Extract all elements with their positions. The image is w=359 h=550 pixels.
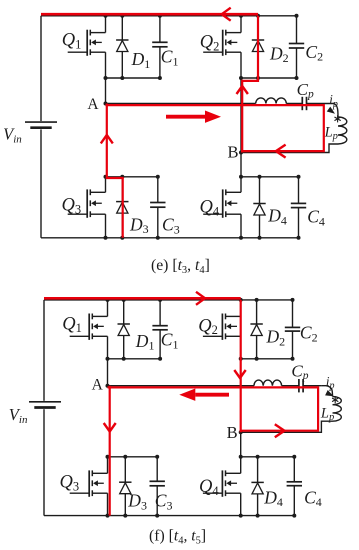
diode D4 (fig f): [257, 457, 259, 516]
wire bottom rail (fig e): [41, 237, 299, 239]
junction Q1 source (fig e): [104, 76, 108, 80]
junction Q3 source on bottom rail (fig f): [106, 514, 110, 518]
junction C2 bottom (fig e): [295, 76, 299, 80]
junction Q2 drain on top rail (fig e): [239, 14, 243, 18]
wire Lp bottom to B rail (fig e): [241, 144, 338, 153]
wire top rail (fig e): [41, 15, 297, 17]
red arrow down on A leg (fig f): [104, 423, 116, 432]
diode D3 (fig e): [121, 177, 123, 238]
diode D1 (fig f): [123, 300, 125, 359]
capacitor Cp (fig f): [298, 379, 300, 392]
wire junction row below Q1 (fig e): [106, 77, 160, 79]
capacitor C1 (fig f): [159, 300, 161, 326]
node A (fig e): [104, 102, 108, 106]
capacitor Cp (fig e): [301, 97, 303, 110]
battery Vin (fig f): [29, 401, 61, 403]
node A (fig f): [106, 384, 110, 388]
junction D2 anode (fig f): [255, 357, 259, 361]
wire top rail (fig f): [44, 299, 293, 301]
transistor Q2 (fig f): [240, 300, 242, 317]
junction C2 top on top rail (fig f): [291, 298, 295, 302]
red current path through D2 (fig e): [242, 16, 258, 153]
junction D2 cathode on top rail (fig f): [255, 298, 259, 302]
red current path node A down through Q3 (fig f): [109, 386, 111, 516]
wire node A to resonant inductor (fig e): [106, 103, 256, 105]
svg-text:A: A: [92, 376, 104, 393]
junction Q2 source (fig f): [239, 357, 243, 361]
junction Q1 source (fig f): [106, 357, 110, 361]
transistor Q4 (fig f): [240, 457, 242, 474]
wire leg from Q1 row down to node A (fig f): [107, 359, 109, 386]
wire leg from Q2 row through node B (fig f): [240, 359, 242, 457]
junction D4 anode on bottom rail (fig f): [256, 514, 260, 518]
junction C2 top on top rail (fig e): [295, 14, 299, 18]
current arrow ip (fig f): [325, 390, 335, 399]
wire left leg lower (fig f): [43, 409, 45, 515]
junction C1 bottom (fig e): [158, 76, 162, 80]
transistor Q3 (fig e): [105, 177, 107, 193]
junction Q3 source on bottom rail (fig e): [104, 236, 108, 240]
red arrow down on B leg (fig f): [234, 370, 245, 378]
junction C4 top (fig f): [292, 455, 296, 459]
capacitor C3 (fig e): [157, 177, 159, 203]
wire junction row above Q3 (fig e): [106, 176, 158, 178]
junction C3 bottom on bottom rail (fig f): [155, 514, 159, 518]
battery Vin (fig e): [25, 121, 57, 123]
wire Lp bottom to B rail (fig f): [241, 421, 333, 432]
junction D1 anode (fig f): [122, 357, 126, 361]
wire inductor to Cp (fig e): [286, 103, 302, 105]
junction Q2 source (fig e): [239, 76, 243, 80]
capacitor C1 (fig e): [159, 16, 161, 43]
svg-text:B: B: [228, 142, 239, 161]
capacitor C4 (fig f): [293, 457, 295, 482]
junction C1 top on top rail (fig f): [158, 298, 162, 302]
junction C2 bottom (fig f): [291, 357, 295, 361]
junction Q3 drain (fig e): [104, 175, 108, 179]
red arrow up on B leg (fig e): [237, 86, 248, 94]
red current loop through resonant tank (fig f): [108, 387, 319, 430]
diode D1 (fig e): [121, 16, 123, 78]
capacitor C4 (fig e): [298, 177, 300, 204]
node B (fig e): [239, 151, 243, 155]
junction D4 cathode (fig e): [258, 175, 262, 179]
junction C3 top (fig e): [156, 175, 160, 179]
junction C3 top (fig f): [155, 455, 159, 459]
junction C1 bottom (fig f): [158, 357, 162, 361]
diode D4 (fig e): [259, 177, 261, 238]
junction D4 cathode (fig f): [256, 455, 260, 459]
red solid arrow current direction left (fig f): [195, 393, 229, 397]
magnetizing inductor Lp (fig f): [333, 397, 342, 422]
capacitor C2 (fig e): [296, 16, 298, 44]
junction Q4 source on bottom rail (fig e): [239, 236, 243, 240]
wire junction row above Q3 (fig f): [108, 456, 158, 458]
junction C1 top on top rail (fig e): [158, 14, 162, 18]
svg-text:A: A: [87, 96, 99, 113]
current arrow ip (fig e): [327, 107, 337, 117]
wire left leg lower (fig e): [40, 129, 42, 237]
transformer dot marking (star) (fig e): [337, 115, 339, 122]
capacitor C2 (fig f): [292, 300, 294, 328]
wire leg from Q2 row through node B (fig e): [240, 78, 242, 177]
wire left leg / input branch (fig f): [43, 300, 45, 401]
red current path: top rail (fig f): [44, 297, 241, 300]
red arrow right on top rail (fig f): [196, 292, 205, 305]
capacitor C3 (fig f): [156, 457, 158, 482]
red arrow up on A leg (fig e): [101, 135, 113, 144]
junction C4 bottom on bottom rail (fig e): [297, 236, 301, 240]
diode D2 (fig f): [256, 300, 258, 359]
red arrow right on B wire (fig f): [275, 424, 285, 437]
wire leg from Q1 row down to node A (fig e): [105, 78, 107, 104]
junction Q1 drain on top rail (fig f): [106, 298, 110, 302]
wire junction row below Q2 (fig f): [241, 358, 293, 360]
red arrow left on B wire (fig e): [276, 145, 286, 158]
red current path node A down through D3 (fig e): [107, 104, 123, 238]
junction D3 anode on bottom rail (fig f): [123, 514, 127, 518]
series resonant inductor (fig e): [256, 98, 287, 104]
svg-text:B: B: [227, 423, 238, 442]
transistor Q2 (fig e): [240, 16, 242, 33]
diode D3 (fig f): [124, 457, 126, 516]
junction D3 anode on bottom rail (fig e): [120, 236, 124, 240]
junction D2 cathode on top rail (fig e): [256, 14, 260, 18]
wire bend into Lp with ip arrow (fig e): [329, 104, 338, 118]
wire Cp to transformer (fig f): [303, 385, 321, 387]
red solid arrow current direction right (fig e): [166, 115, 205, 119]
wire bend into Lp with ip arrow (fig f): [321, 386, 332, 397]
junction D1 cathode on top rail (fig e): [120, 14, 124, 18]
junction D2 anode (fig e): [256, 76, 260, 80]
junction D1 anode (fig e): [120, 76, 124, 80]
wire Cp to transformer (fig e): [307, 103, 330, 105]
wire junction row above Q4 (fig e): [241, 176, 299, 178]
transistor Q3 (fig f): [107, 457, 109, 474]
wire inductor to Cp (fig f): [282, 385, 299, 387]
wire junction row below Q2 (fig e): [241, 77, 297, 79]
magnetizing inductor Lp (fig e): [338, 117, 347, 144]
junction Q4 drain (fig e): [239, 175, 243, 179]
node B (fig f): [239, 430, 243, 434]
series resonant inductor (fig f): [254, 380, 282, 386]
junction Q2 drain on top rail (fig f): [239, 298, 243, 302]
junction D3 cathode (fig f): [123, 455, 127, 459]
red arrow left on top rail (fig e): [222, 8, 231, 21]
junction Q3 drain (fig f): [106, 455, 110, 459]
red current path through Q2 leg down to B (fig f): [240, 300, 242, 432]
transistor Q1 (fig f): [107, 300, 109, 317]
junction Q4 drain (fig f): [239, 455, 243, 459]
wire junction row below Q1 (fig f): [108, 358, 161, 360]
transformer dot marking (star) (fig f): [334, 396, 336, 403]
red current loop through resonant tank (fig e): [106, 105, 324, 151]
junction D1 cathode on top rail (fig f): [122, 298, 126, 302]
wire junction row above Q4 (fig f): [241, 456, 295, 458]
junction C3 bottom on bottom rail (fig e): [156, 236, 160, 240]
wire bottom rail (fig f): [44, 515, 294, 517]
junction Q1 drain on top rail (fig e): [104, 14, 108, 18]
junction D4 anode on bottom rail (fig e): [258, 236, 262, 240]
junction C4 bottom on bottom rail (fig f): [292, 514, 296, 518]
diode D2 (fig e): [257, 16, 259, 78]
transistor Q4 (fig e): [240, 177, 242, 193]
junction Q4 source on bottom rail (fig f): [239, 514, 243, 518]
transistor Q1 (fig e): [105, 16, 107, 33]
junction C4 top (fig e): [297, 175, 301, 179]
junction D3 cathode (fig e): [120, 175, 124, 179]
red current path: top rail (fig e): [41, 13, 258, 16]
wire left leg / input branch (fig e): [40, 16, 42, 121]
wire node A to resonant inductor (fig f): [108, 385, 255, 387]
